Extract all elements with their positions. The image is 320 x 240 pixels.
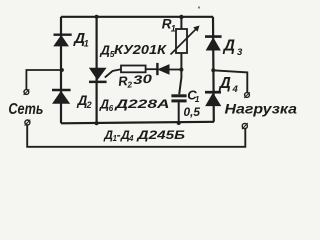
wire D6 to node	[169, 69, 181, 71]
junction bottom thyristor	[95, 121, 99, 125]
svg-text:4: 4	[232, 84, 239, 95]
svg-text:Д: Д	[218, 75, 231, 92]
R1 wiper arrow	[171, 26, 200, 55]
svg-text:6: 6	[109, 104, 114, 113]
label D4	[218, 75, 239, 95]
svg-text:4: 4	[128, 134, 134, 143]
label D5 KU201K	[100, 42, 168, 58]
diode D1	[54, 35, 72, 46]
resistor R1	[176, 29, 187, 53]
svg-text:0,5: 0,5	[184, 107, 201, 119]
label R1	[162, 17, 176, 34]
label R2 value 30	[118, 71, 154, 91]
label D1-D4 D245B	[103, 128, 185, 143]
wire R1 bottom lead	[180, 53, 182, 70]
wire mains top lead	[26, 70, 62, 90]
svg-text:КУ201К: КУ201К	[114, 43, 168, 57]
wire left branch	[60, 17, 62, 124]
svg-text:Нагрузка: Нагрузка	[225, 100, 298, 116]
terminal mains top	[24, 89, 30, 95]
svg-text:-: -	[117, 128, 121, 142]
svg-text:Д228А: Д228А	[114, 97, 169, 111]
label D1	[72, 30, 89, 48]
junction mains tap	[60, 68, 64, 72]
svg-text:2: 2	[126, 79, 133, 89]
label D3	[222, 37, 243, 57]
wire R2 to D6	[146, 68, 157, 70]
junction load tap	[211, 68, 215, 72]
diode D2	[52, 90, 71, 103]
wire thyristor branch	[95, 17, 97, 124]
svg-text:Д: Д	[222, 37, 235, 54]
svg-text:3: 3	[237, 47, 243, 58]
thyristor D5	[89, 68, 107, 82]
label D2	[77, 93, 92, 110]
terminal load bottom	[242, 123, 248, 129]
svg-text:Сеть: Сеть	[8, 101, 43, 118]
junction top R1	[179, 15, 183, 19]
terminal load top	[244, 92, 250, 98]
thyristor D5 gate lead	[105, 69, 121, 77]
svg-text:1: 1	[84, 39, 89, 49]
diode D6	[157, 63, 169, 75]
label C1	[187, 87, 200, 104]
wire R1 top lead	[180, 17, 182, 29]
svg-text:Д245Б: Д245Б	[136, 128, 185, 142]
diode D3	[205, 37, 222, 50]
resistor R2	[121, 66, 146, 73]
svg-text:2: 2	[86, 100, 92, 110]
svg-text:1: 1	[171, 24, 176, 34]
junction top thyristor	[95, 15, 99, 19]
junction node D6/R1/C1	[179, 68, 183, 72]
terminal mains bottom	[25, 120, 31, 126]
wire right branch	[212, 17, 215, 122]
diode D4	[205, 92, 221, 105]
svg-text:30: 30	[132, 72, 153, 88]
capacitor C1	[171, 96, 186, 101]
wire bottom bus	[61, 122, 214, 124]
speck	[198, 6, 200, 8]
label D6 D228A	[99, 97, 170, 113]
junction bottom C1	[177, 121, 181, 125]
svg-text:1: 1	[195, 94, 200, 104]
wire load tap	[213, 70, 247, 92]
wire C1 top lead	[179, 70, 181, 95]
wire C1 bottom lead	[178, 102, 180, 123]
wire load return	[27, 125, 245, 147]
svg-text:Д: Д	[99, 98, 109, 112]
wire top bus	[61, 16, 213, 18]
